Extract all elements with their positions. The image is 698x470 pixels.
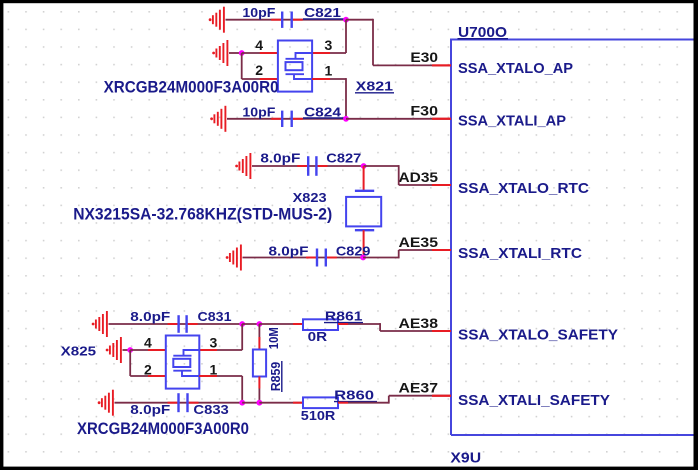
resistor R859 bottom lead <box>258 377 260 403</box>
resistor R861 body <box>303 319 338 330</box>
svg-text:SSA_XTALI_SAFETY: SSA_XTALI_SAFETY <box>458 392 610 409</box>
capacitor C829 <box>306 249 337 267</box>
wire junction to pin3 <box>312 20 346 53</box>
reference R859 <box>268 361 283 392</box>
wire between junctions <box>242 323 259 325</box>
ground G6 (C831) <box>92 311 107 337</box>
svg-text:1: 1 <box>325 63 333 79</box>
junction C824/pin1/F30 <box>343 116 349 122</box>
wire to pin 4 (X825) <box>130 349 166 351</box>
label 8.0pF (C827) <box>260 152 300 166</box>
crystal X825 (24MHz safety) <box>166 336 200 389</box>
pin number F30 <box>410 103 438 119</box>
IC reference U700O <box>458 24 509 41</box>
pin number 3 (X821) <box>325 37 333 53</box>
ground G7 (X825 pins 2,4) <box>106 337 121 363</box>
wire to F30 <box>346 118 451 120</box>
IC pin AE38 stub <box>432 330 451 332</box>
wire junction down to pin 2 <box>242 53 278 79</box>
pin number 2 (X825) <box>144 362 152 378</box>
label 10pF (C821) <box>242 6 275 20</box>
IC pin AE37 stub <box>432 395 451 397</box>
reference X821 <box>355 79 394 94</box>
pin number 1 (X821) <box>325 63 333 79</box>
svg-text:NX3215SA-32.768KHZ(STD-MUS-2): NX3215SA-32.768KHZ(STD-MUS-2) <box>73 205 332 224</box>
svg-text:C831: C831 <box>198 310 232 324</box>
pin number AE37 <box>399 380 439 396</box>
wire G7 to junction <box>123 349 131 351</box>
svg-text:AE35: AE35 <box>399 234 439 250</box>
svg-text:C824: C824 <box>304 105 341 119</box>
svg-text:X825: X825 <box>61 343 96 358</box>
IC pin F30 stub <box>432 118 451 120</box>
wire C831 row <box>109 323 243 325</box>
svg-text:X823: X823 <box>293 190 327 205</box>
svg-text:XRCGB24M000F3A00R0: XRCGB24M000F3A00R0 <box>77 419 249 438</box>
junction pin4/pin2 (X825) <box>127 347 133 353</box>
crystal X823 bottom lead <box>355 230 374 257</box>
pin number 4 (X821) <box>255 37 263 53</box>
capacitor C824 <box>271 111 303 127</box>
wire between junctions C833 <box>242 402 259 404</box>
ground G4 (C827) <box>235 153 250 179</box>
pin number 1 (X825) <box>210 362 218 378</box>
reference R861 <box>324 309 363 324</box>
svg-text:10pF: 10pF <box>242 105 275 119</box>
svg-text:C827: C827 <box>326 152 361 166</box>
svg-text:AD35: AD35 <box>399 169 439 185</box>
svg-text:4: 4 <box>255 37 263 53</box>
IC pin AD35 stub <box>432 184 451 186</box>
wire C824 row <box>227 118 346 120</box>
wire C827 row <box>252 165 364 167</box>
ground G2 (X821 pins 2,4) <box>212 40 227 66</box>
junction R859 top/R861 <box>257 321 263 327</box>
capacitor C827 <box>297 156 327 176</box>
label C821 <box>303 6 345 20</box>
svg-text:SSA_XTALI_AP: SSA_XTALI_AP <box>458 113 566 130</box>
wire to pin 4 <box>242 52 278 54</box>
junction C833/pin1 <box>239 400 245 406</box>
crystal X821 (24MHz) <box>278 41 312 92</box>
svg-text:C833: C833 <box>193 403 228 417</box>
svg-text:8.0pF: 8.0pF <box>130 310 170 324</box>
label C833 <box>193 403 228 417</box>
reference R860 <box>334 388 377 403</box>
svg-text:R859: R859 <box>268 362 283 392</box>
svg-text:E30: E30 <box>410 49 438 65</box>
crystal X823 top lead <box>355 166 374 191</box>
pin name SSA_XTALI_RTC <box>458 245 582 262</box>
label 8.0pF (C829) <box>269 244 309 258</box>
wire R860 to AE37 <box>338 396 451 404</box>
svg-text:F30: F30 <box>410 103 438 119</box>
pin name SSA_XTALI_SAFETY <box>458 392 610 409</box>
wire to R861 <box>259 323 303 325</box>
svg-text:XRCGB24M000F3A00R0: XRCGB24M000F3A00R0 <box>104 78 279 97</box>
pin number 4 (X825) <box>144 335 152 351</box>
svg-text:10M: 10M <box>267 327 281 349</box>
svg-text:SSA_XTALO_AP: SSA_XTALO_AP <box>458 60 573 77</box>
svg-text:0R: 0R <box>308 330 328 344</box>
wire junction down to pin 2 (X825) <box>130 350 166 376</box>
wire C833 row <box>115 402 243 404</box>
svg-text:510R: 510R <box>301 409 336 423</box>
pin name SSA_XTALO_AP <box>458 60 573 77</box>
svg-text:8.0pF: 8.0pF <box>260 152 300 166</box>
svg-text:X9U: X9U <box>450 450 481 467</box>
pin number 2 (X821) <box>255 62 263 78</box>
junction C831/pin3 <box>239 321 245 327</box>
wire C829 row <box>243 257 364 259</box>
svg-text:10pF: 10pF <box>242 6 275 20</box>
wire pin1 to C833 row <box>199 376 242 403</box>
svg-text:4: 4 <box>144 335 152 351</box>
svg-text:8.0pF: 8.0pF <box>130 403 170 417</box>
wire C821 row <box>226 19 347 21</box>
IC pin E30 stub <box>432 64 451 66</box>
svg-text:2: 2 <box>144 362 152 378</box>
label 10pF (C824) <box>242 105 275 119</box>
pin name SSA_XTALO_RTC <box>458 180 589 197</box>
wire to AD35 <box>364 165 451 185</box>
svg-text:SSA_XTALO_SAFETY: SSA_XTALO_SAFETY <box>458 327 618 344</box>
junction pin4/pin2 <box>239 50 245 56</box>
capacitor C831 <box>168 315 198 333</box>
resistor R860 body <box>303 397 338 408</box>
wire to R860 <box>259 402 303 404</box>
label C827 <box>326 152 361 166</box>
label 8.0pF (C833) <box>130 403 170 417</box>
label NX3215SA-32.768KHZ(STD-MUS-2) <box>73 205 332 224</box>
svg-text:3: 3 <box>210 335 218 351</box>
pin number AE38 <box>399 315 439 331</box>
pin name SSA_XTALO_SAFETY <box>458 327 618 344</box>
ground G1 (C821) <box>209 7 224 33</box>
pin number 3 (X825) <box>210 335 218 351</box>
ground G3 (C824) <box>210 106 225 132</box>
IC bottom label X9U <box>450 450 481 467</box>
value 10M (R859) <box>267 327 281 349</box>
resistor R859 body <box>253 350 266 377</box>
svg-text:R860: R860 <box>334 388 374 403</box>
value 510R (R860) <box>301 409 336 423</box>
wire G2 to junction <box>229 52 242 54</box>
svg-text:3: 3 <box>325 37 333 53</box>
junction C821/pin3/E30 <box>343 17 349 23</box>
value 0R (R861) <box>308 330 328 344</box>
svg-text:AE37: AE37 <box>399 380 439 396</box>
svg-text:X821: X821 <box>356 79 393 94</box>
label C831 <box>198 310 232 324</box>
svg-text:R861: R861 <box>325 309 363 324</box>
resistor R859 top lead <box>258 324 260 350</box>
label C824 <box>303 105 345 119</box>
wire to AE35 <box>363 250 451 258</box>
pin number AE35 <box>399 234 439 250</box>
svg-text:C821: C821 <box>304 6 341 20</box>
IC U700O body <box>451 40 696 436</box>
reference X823 <box>293 190 327 205</box>
wire pin1 to F30 junction <box>312 78 346 119</box>
svg-text:AE38: AE38 <box>399 315 439 331</box>
ground G8 (C833) <box>98 390 113 416</box>
svg-text:2: 2 <box>255 62 263 78</box>
capacitor C821 <box>271 12 303 28</box>
label XRCGB24M000F3A00R0 (X821 value) <box>104 78 279 97</box>
svg-text:SSA_XTALO_RTC: SSA_XTALO_RTC <box>458 180 589 197</box>
ground G5 (C829) <box>226 245 241 271</box>
pin name SSA_XTALI_AP <box>458 113 566 130</box>
svg-text:SSA_XTALI_RTC: SSA_XTALI_RTC <box>458 245 582 262</box>
svg-text:8.0pF: 8.0pF <box>269 244 309 258</box>
label C829 <box>336 244 371 258</box>
reference X825 <box>61 343 96 358</box>
junction R859 bottom/R860 <box>257 400 263 406</box>
wire R861 to AE38 <box>338 323 451 331</box>
pin number AD35 <box>399 169 439 185</box>
junction C829/X823/AE35 <box>360 255 366 261</box>
pin number E30 <box>410 49 438 65</box>
wire junction to E30 <box>346 19 451 66</box>
wire junction down to pin3 <box>199 324 242 350</box>
label 8.0pF (C831) <box>130 310 170 324</box>
junction C827/X823/AD35 <box>361 163 367 169</box>
IC pin AE35 stub <box>432 249 451 251</box>
label XRCGB24M000F3A00R0 (X825 value) <box>77 419 249 438</box>
capacitor C833 <box>168 393 199 412</box>
crystal X823 (32.768kHz) <box>346 197 381 227</box>
